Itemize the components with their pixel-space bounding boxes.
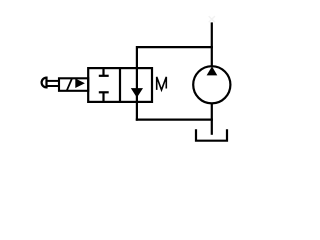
push button stem bottom line [47,85,60,87]
wire supply vertical (top end to pump) [211,22,213,66]
manual actuator box [59,78,88,91]
pump flow triangle (up) [207,66,218,75]
tank T1 [196,129,227,141]
valve V1 body (2/2-way directional valve) [88,68,152,102]
open connection cross (faint) [209,16,215,22]
wire valve inlet vertical [136,46,138,69]
blocked port T top [99,68,109,76]
spring return (right of valve) [157,77,167,90]
wire drain horizontal (valve to tank line) [136,118,213,120]
blocked port T bottom [99,92,109,102]
wire pump to tank vertical [211,103,213,135]
pump P1 circle [193,66,230,103]
valve V1 cell divider [119,68,121,102]
wire valve outlet vertical [136,101,138,121]
push button stem top line [47,80,60,82]
actuator diagonal stroke [67,79,72,91]
flow path line (right cell) [136,68,138,102]
wire branch horizontal (valve inlet tee) [137,46,213,48]
flow path arrowhead (down) [131,88,143,98]
push button knob [42,78,47,88]
actuator pilot triangle (right) [75,79,85,89]
